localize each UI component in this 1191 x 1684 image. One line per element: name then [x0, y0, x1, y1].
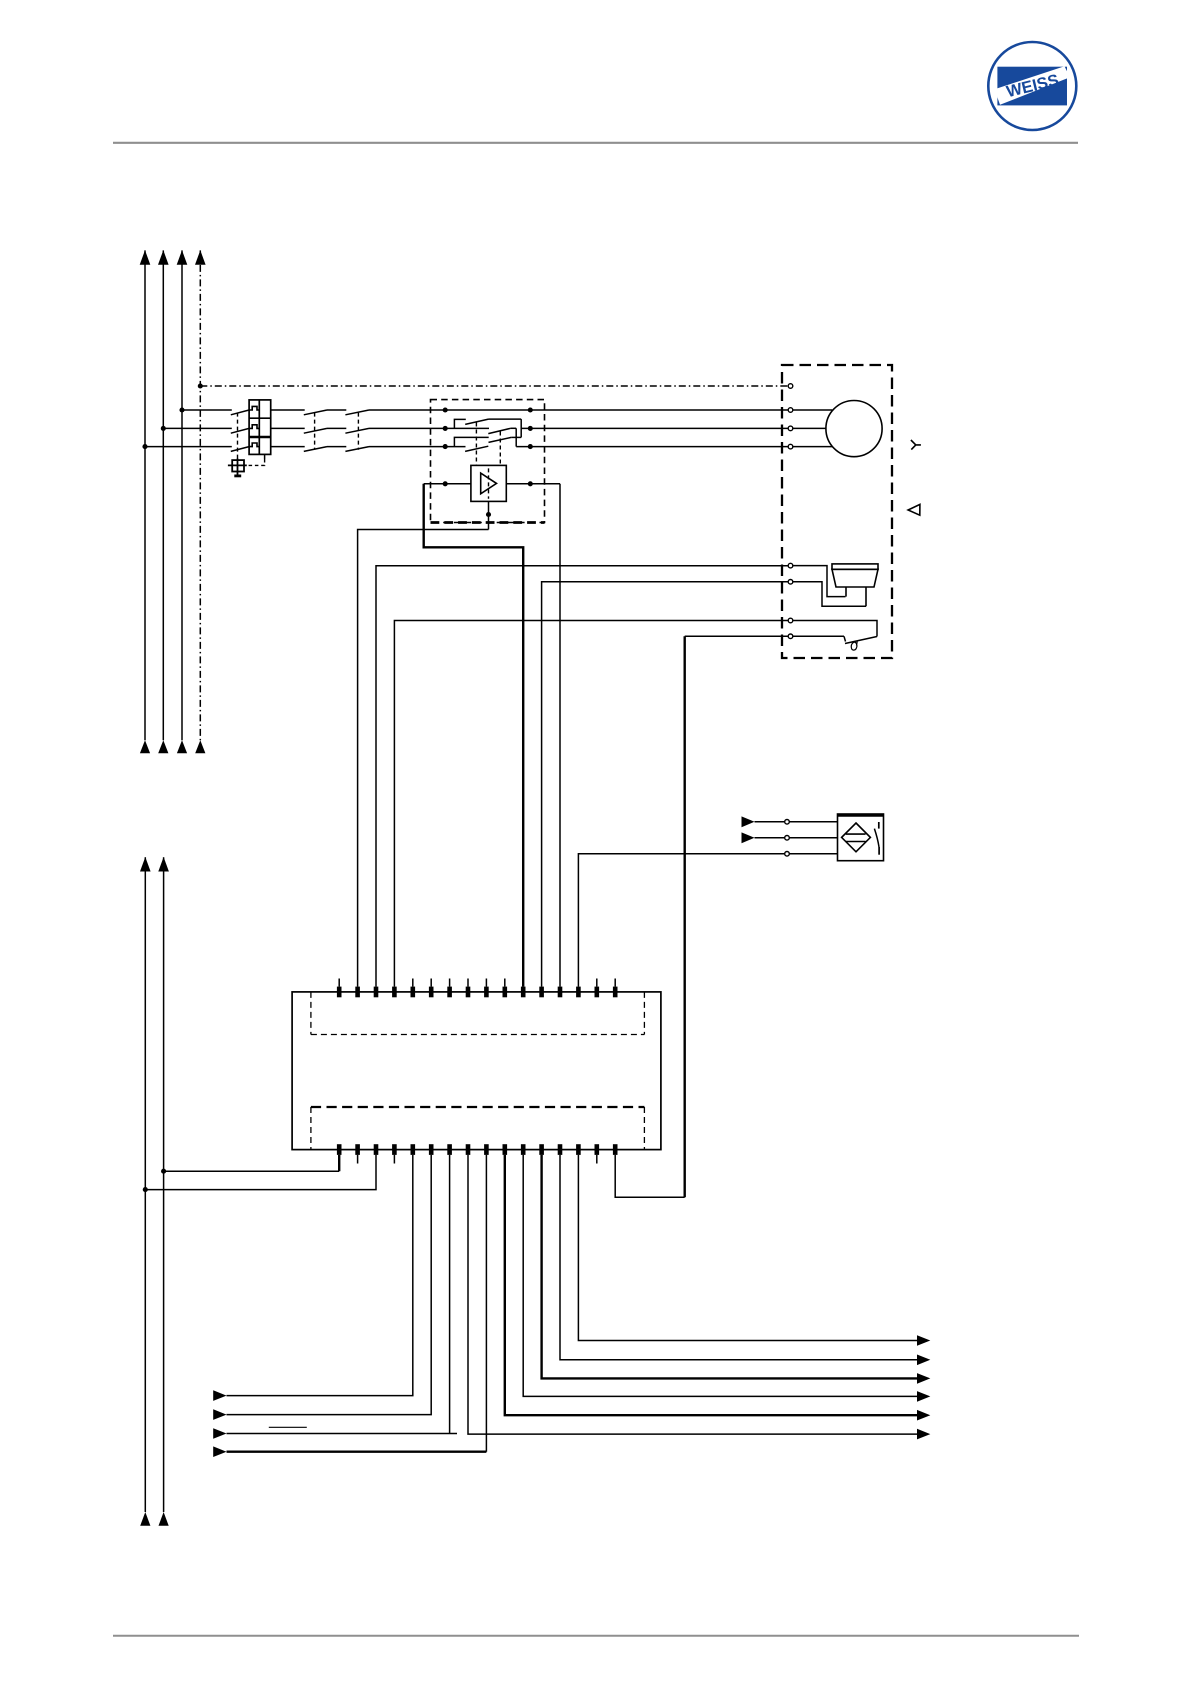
wire thermo bottom — [793, 635, 844, 637]
sensor switch blade — [874, 829, 879, 847]
rail PE top arrow — [195, 250, 206, 265]
terminal W — [788, 444, 793, 449]
brake rectifier G1 box — [471, 465, 506, 501]
rail L3 — [181, 250, 183, 740]
wire phase1 breaker to K1 — [271, 409, 305, 411]
wire sensor 1 — [755, 821, 785, 823]
wire phase1 K2 to motor terminal — [369, 409, 788, 411]
thermal label — [850, 641, 859, 651]
breaker Q1 row line 1 — [249, 417, 271, 419]
thermal contact tick — [844, 636, 846, 641]
wire brake - — [793, 582, 866, 607]
PLC dashed input row — [311, 992, 645, 1035]
wire pin1 horizontal — [164, 1170, 340, 1172]
reversing lower bracket — [454, 437, 488, 446]
reversing blade row3 — [465, 446, 488, 451]
wire row3 right out to motor terminal — [516, 446, 788, 448]
wire pin13 to right arrow 2 — [560, 1155, 917, 1360]
reversing contact upper bracket — [454, 419, 465, 428]
header rule — [113, 142, 1078, 144]
wire cam2 to pin12 — [542, 582, 789, 987]
node rectifier bottom — [486, 512, 491, 517]
wire pin9 to left arrow 4 — [485, 1155, 487, 1452]
pin stubs bottom — [358, 1155, 597, 1164]
switch Q1 linkage (dashed) — [237, 413, 239, 459]
right arrow 3 — [917, 1373, 930, 1384]
wire cam1 to pin3 — [376, 566, 788, 987]
rail L1 — [144, 250, 146, 740]
wire phase3 K1 to K2 — [327, 446, 346, 448]
PLC A1 outer box — [292, 992, 661, 1150]
PLC dashed output row — [311, 1107, 645, 1150]
rail L2 top arrow — [158, 250, 169, 265]
right arrow 5 — [917, 1410, 930, 1421]
wire pin12 to right arrow 3 (thick) — [542, 1155, 917, 1379]
sensor input arrow 1 — [742, 816, 755, 827]
sensor switch tick top — [878, 822, 880, 829]
wire sensor 2b — [789, 837, 837, 839]
breaker Q1 thermal notch 1 — [249, 406, 259, 410]
wire thermo1 to pin4 — [394, 621, 788, 987]
sensor B1 box — [838, 814, 884, 861]
wire thermo2 to loop — [685, 635, 789, 637]
terminal sensor 1 — [785, 820, 790, 825]
wire pin3 to 0V rail — [145, 1155, 376, 1190]
motor unit dashed box — [782, 365, 892, 658]
node rectifier right — [528, 481, 533, 486]
switch Q1 blade pole1 — [231, 410, 249, 415]
terminal PE — [788, 384, 793, 389]
reversing node A jog — [511, 436, 521, 438]
node L1 junction — [142, 444, 147, 449]
rail 24V — [163, 857, 165, 1512]
switch Q1 blade pole2 — [231, 428, 249, 433]
sensor B1 top edge thick — [838, 814, 884, 817]
wire sensor 2 — [755, 837, 785, 839]
contactor K1 linkage — [314, 413, 316, 450]
terminal brake - — [788, 580, 793, 585]
breaker Q1 thermal notch 2 — [249, 425, 259, 429]
reversing contact blade 1 — [465, 419, 488, 424]
left arrow 2 — [213, 1409, 226, 1420]
wire phase1 rail to switch — [182, 409, 232, 411]
reversing blade mid — [488, 428, 510, 433]
rail L2 bottom arrow — [158, 740, 168, 753]
brake Y1 top plate — [832, 564, 878, 569]
reversing contact top rail — [489, 418, 522, 420]
right arrow 1 — [917, 1335, 930, 1346]
wire sensor 3b — [789, 853, 837, 855]
node row2 left — [443, 426, 448, 431]
contactor K1 blade pole3 — [304, 447, 327, 452]
wire rectifier bottom to pin2 — [358, 530, 489, 987]
wire rectifier right to pin13 — [559, 484, 561, 987]
rail L1 top arrow — [140, 250, 151, 265]
wire rectifier right — [506, 483, 560, 485]
sensor switch tick bottom — [878, 847, 880, 855]
node 0V junction — [143, 1187, 148, 1192]
node row3 right — [528, 444, 533, 449]
rail 0V — [144, 857, 146, 1512]
rail L1 bottom arrow — [140, 740, 150, 753]
rail L3 top arrow — [177, 250, 188, 265]
terminal V — [788, 426, 793, 431]
brake Y1 right leg — [865, 587, 867, 606]
wire phase2 breaker to K1 — [271, 427, 305, 429]
wire phase2 K1 to K2 — [327, 427, 346, 429]
reversing unit bottom edge (thick dashes) — [431, 521, 545, 524]
wire pin10 to right arrow 5 (thick) — [505, 1155, 917, 1415]
wire rectifier bottom — [488, 501, 490, 529]
delta symbol — [908, 504, 920, 515]
brake Y1 cone — [832, 569, 878, 587]
terminal thermo 2 — [788, 634, 793, 639]
brake rectifier triangle — [481, 473, 497, 494]
breaker Q1 row line 2 (thick) — [249, 436, 271, 439]
contactor K1 blade pole1 — [304, 410, 327, 415]
wire pin5 to left arrow 1 — [227, 1155, 413, 1396]
wire phase1 K1 to K2 — [327, 409, 346, 411]
wire phase2 rail to switch — [163, 427, 232, 429]
breaker Q1 box — [249, 400, 271, 455]
wire pin8 to right arrow 6 — [468, 1155, 917, 1434]
wire rectifier left — [424, 483, 471, 485]
rail PE (dash-dot) — [199, 250, 201, 740]
reversing blade lower — [489, 437, 512, 442]
brake rectifier center line (dashed) — [488, 468, 490, 498]
breaker Q1 divider — [258, 400, 260, 455]
wire thermo top — [793, 621, 877, 637]
node 24V junction — [161, 1169, 166, 1174]
PLC output row thick dashes — [311, 1106, 645, 1108]
wire phase3 K2 into reversing unit — [369, 446, 466, 448]
wire phase2 K2 into reversing unit — [369, 427, 489, 429]
actuator link 1 (dashed) — [475, 423, 477, 466]
wire U to motor — [793, 409, 833, 411]
reversing unit dashed box — [431, 400, 545, 523]
node row1 left — [443, 407, 448, 412]
node row3 left — [443, 444, 448, 449]
reversing node B vertical — [515, 428, 517, 446]
wire W to motor — [793, 446, 833, 448]
wire phase3 rail to switch — [145, 446, 232, 448]
brake Y1 left leg — [845, 587, 847, 597]
rail 24V top arrow — [158, 857, 169, 872]
node row1 right — [528, 407, 533, 412]
contactor K2 blade pole3 — [345, 447, 369, 452]
terminal thermo 1 — [788, 618, 793, 623]
contactor K2 blade pole2 — [345, 428, 369, 433]
breaker Q1 thermal notch 3 — [249, 443, 259, 447]
contactor K1 blade pole2 — [304, 428, 327, 433]
wire pin11 to right arrow 4 — [523, 1155, 917, 1397]
WEISS logo — [988, 42, 1076, 130]
PLC pins bottom — [337, 1144, 618, 1155]
wire pin6 to left arrow 2 — [227, 1155, 432, 1415]
wire row2 right out to motor terminal — [521, 427, 788, 429]
reversing node A vertical — [520, 419, 522, 437]
sensor diamond chord 1 — [846, 833, 866, 835]
wire pin14 to right arrow 1 — [578, 1155, 917, 1341]
rail 0V bottom arrow — [140, 1512, 150, 1526]
sensor input arrow 2 — [742, 832, 755, 843]
node L2 junction — [161, 426, 166, 431]
wire thermo loop vertical (thick) — [684, 636, 686, 1197]
left arrow 1 — [213, 1390, 226, 1401]
node L3 junction — [179, 407, 184, 412]
right arrow 6 — [917, 1429, 930, 1440]
wire sensor 1b — [789, 821, 837, 823]
actuator link 2 (dashed) — [499, 432, 501, 466]
wire rectifier left to pin11 (thick) — [424, 484, 524, 987]
pin stubs top — [339, 979, 615, 987]
wire phase3 breaker to K1 — [271, 446, 305, 448]
thermal contact blade — [845, 637, 877, 644]
handle symbol — [228, 459, 247, 478]
rail L2 — [162, 250, 164, 740]
sensor diamond chord 2 — [846, 841, 866, 843]
left arrow 4 — [213, 1446, 226, 1457]
sensor diamond — [842, 823, 871, 852]
rail PE bottom arrow — [195, 740, 205, 753]
node PE junction — [198, 383, 203, 388]
rail 0V top arrow — [140, 857, 151, 872]
motor M1 circle — [826, 401, 882, 457]
breaker Q1 bottom stub — [264, 454, 266, 459]
wire pin1 to 24V rail (vertical thick) — [338, 1155, 340, 1171]
rail L3 bottom arrow — [177, 740, 187, 753]
terminal U — [788, 408, 793, 413]
contactor K2 blade pole1 — [345, 410, 369, 415]
terminal sensor 3 — [785, 852, 790, 857]
right arrow 4 — [917, 1391, 930, 1402]
terminal brake + — [788, 563, 793, 568]
terminal sensor 2 — [785, 836, 790, 841]
wire pin7 to left arrow 3 — [227, 1155, 458, 1434]
right arrow 2 — [917, 1355, 930, 1366]
wire V to motor — [793, 427, 826, 429]
wire pin9 horizontal (thick) — [227, 1450, 487, 1452]
PLC pins top — [337, 987, 618, 998]
wire pin16 to thermo loop — [615, 1155, 685, 1197]
node row2 right — [528, 426, 533, 431]
rail 24V bottom arrow — [159, 1512, 169, 1526]
switch Q1 blade pole3 — [231, 447, 249, 452]
footer rule — [113, 1635, 1079, 1637]
breaker linkage dashes — [247, 459, 265, 465]
node rectifier left — [443, 481, 448, 486]
contactor K2 linkage — [357, 413, 359, 450]
reversing tiny link — [511, 427, 517, 429]
left arrow 3 — [213, 1428, 226, 1439]
wire PE dash-dot to motor — [200, 385, 788, 387]
wire brake + — [793, 566, 846, 597]
signal overline mark — [269, 1426, 307, 1428]
wire sensor 3 to pin14 — [578, 854, 784, 987]
star symbol — [911, 440, 921, 450]
